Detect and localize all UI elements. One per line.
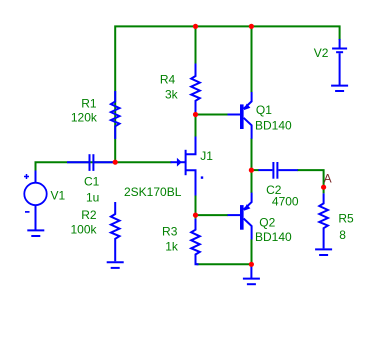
svg-text:R1: R1 <box>81 96 97 110</box>
svg-text:J1: J1 <box>200 149 213 163</box>
svg-text:2SK170BL: 2SK170BL <box>124 185 182 199</box>
svg-text:1k: 1k <box>165 240 179 254</box>
svg-text:R4: R4 <box>160 72 176 86</box>
svg-text:1u: 1u <box>86 190 99 204</box>
svg-text:3k: 3k <box>165 87 179 101</box>
svg-text:BD140: BD140 <box>255 230 292 244</box>
svg-text:120k: 120k <box>71 110 98 124</box>
svg-text:R5: R5 <box>338 212 354 226</box>
svg-text:Q2: Q2 <box>259 216 275 230</box>
svg-text:V1: V1 <box>51 189 66 203</box>
svg-text:4700: 4700 <box>272 194 299 208</box>
svg-text:100k: 100k <box>70 223 97 237</box>
svg-text:C1: C1 <box>84 175 100 189</box>
svg-text:A: A <box>324 171 332 185</box>
svg-text:R2: R2 <box>81 208 97 222</box>
svg-text:Q1: Q1 <box>256 103 272 117</box>
svg-text:R3: R3 <box>162 225 178 239</box>
svg-text:BD140: BD140 <box>255 119 292 133</box>
svg-text:V2: V2 <box>314 46 329 60</box>
svg-text:8: 8 <box>339 228 346 242</box>
